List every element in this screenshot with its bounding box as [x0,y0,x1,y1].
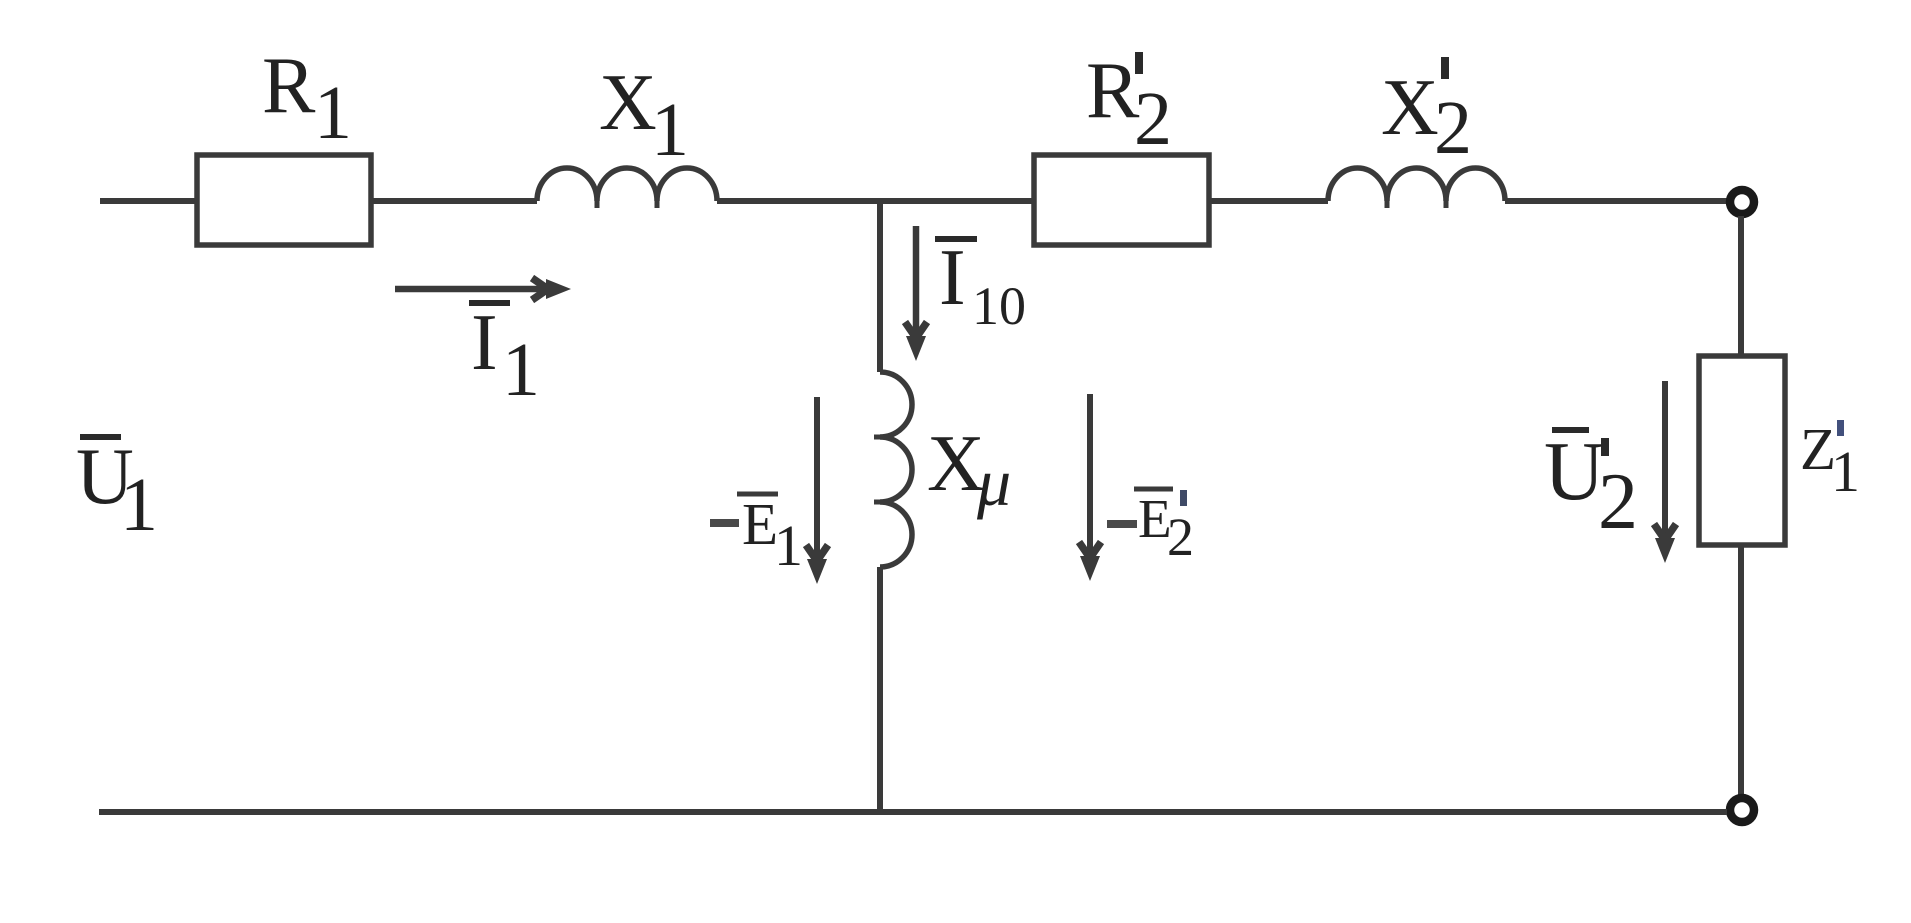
resistor R1 [197,155,371,245]
wire: bottom rail [99,809,1727,815]
svg-text:I: I [471,299,498,387]
label I10 [935,234,1026,336]
arrow I1 [395,278,571,300]
svg-text:R: R [262,42,316,130]
svg-text:1: 1 [502,328,540,412]
arrow -E2' [1079,394,1101,581]
arrow -E1 [806,397,828,584]
terminal: top output [1730,190,1754,214]
svg-text:2: 2 [1167,507,1194,567]
svg-text:X: X [1381,64,1439,152]
svg-text:X: X [599,59,657,147]
resistor R2' [1034,155,1209,245]
wire: terminal to Z1' [1738,216,1744,356]
label R2' [1086,47,1172,161]
svg-text:1: 1 [120,463,158,547]
svg-text:R: R [1086,47,1140,135]
label I1 [469,299,540,412]
label Xmu [927,420,1011,520]
wire: X2' to output terminal [1505,198,1727,204]
wire: Xmu to bottom rail [877,567,883,812]
label -E2' [1107,488,1194,567]
wire: R1 to X1 [371,198,537,204]
impedance Z1' (load box) [1699,356,1785,545]
wire: Z1' to bottom terminal [1738,545,1744,796]
label R1 [262,42,352,155]
label X1 [599,59,689,172]
arrow U2' [1654,381,1676,563]
label U2' [1544,425,1638,546]
svg-text:10: 10 [972,276,1026,336]
inductor X2' [1328,168,1505,208]
svg-text:μ: μ [976,444,1011,520]
svg-text:I: I [939,234,966,322]
label X2' [1381,57,1472,170]
svg-text:1: 1 [774,513,803,578]
svg-text:U: U [1544,425,1605,518]
svg-text:2: 2 [1134,77,1172,161]
svg-text:2: 2 [1598,458,1638,546]
wire: R2' to X2' [1209,198,1328,204]
svg-text:1: 1 [1831,439,1860,504]
arrow I10 [905,226,927,361]
terminal: bottom output [1730,798,1754,822]
label U1 [76,433,158,547]
label -E1 [710,491,803,578]
inductor Xmu (vertical) [874,372,912,567]
inductor X1 [537,168,717,208]
svg-text:2: 2 [1434,86,1472,170]
wire: X1 to R2' through node A [717,198,1034,204]
label Z1' [1800,416,1860,504]
svg-text:1: 1 [314,71,352,155]
node A: junction wire from top rail down [877,198,883,372]
svg-text:1: 1 [651,88,689,172]
wire: left input lead (top) [100,198,197,204]
svg-text:E: E [742,491,778,557]
